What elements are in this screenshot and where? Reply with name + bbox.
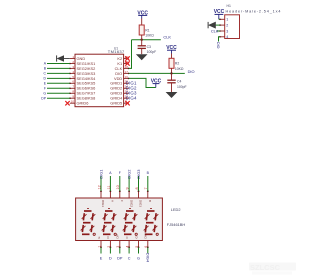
svg-text:DIG2: DIG2 xyxy=(127,169,132,179)
svg-text:F: F xyxy=(120,200,124,202)
no-connect X at U1 pin 11 GRID5 xyxy=(125,101,129,105)
svg-text:DIO: DIO xyxy=(188,69,195,74)
wire from display pin 2 xyxy=(109,248,111,254)
H1 pin stubs xyxy=(220,19,225,37)
wire CLK vertical from U1 pin 18 xyxy=(129,40,132,69)
display top pin end dots xyxy=(100,190,149,192)
svg-text:G: G xyxy=(137,257,140,261)
wire H1 pin4 DIO xyxy=(219,37,220,42)
U1 right pin numbers 20-11 xyxy=(125,55,129,104)
display inside top pin names vertical xyxy=(101,200,152,207)
no-connect X at U1 pin 19 K1 xyxy=(125,61,129,65)
wire VCC to R1 xyxy=(141,19,143,26)
H1 pin end dots xyxy=(219,19,221,38)
svg-text:17: 17 xyxy=(125,70,129,74)
svg-text:1: 1 xyxy=(97,246,101,248)
svg-text:A: A xyxy=(109,171,112,175)
svg-text:DIG1: DIG1 xyxy=(101,200,105,207)
svg-text:6: 6 xyxy=(144,246,148,248)
svg-text:E: E xyxy=(100,257,103,261)
wire H1 pin1 to VCC xyxy=(219,18,220,20)
junction DIO node xyxy=(170,72,172,74)
svg-text:C3: C3 xyxy=(147,45,151,49)
svg-text:LED2: LED2 xyxy=(171,207,181,212)
display top pin numbers 12 11 10 9 8 7 rotated xyxy=(97,185,148,189)
capacitor C4 xyxy=(167,73,175,92)
ground flag at U1 pin 1 xyxy=(57,55,70,62)
wire from display pin 5 xyxy=(138,248,140,254)
display LED2 body xyxy=(76,198,163,241)
display top pin stubs xyxy=(101,191,148,198)
wire to display pin 12 xyxy=(100,176,102,191)
svg-text:E: E xyxy=(44,81,47,85)
svg-text:B: B xyxy=(147,171,150,175)
svg-text:Header-Male-2.54_1x4: Header-Male-2.54_1x4 xyxy=(226,10,282,14)
svg-text:100pF: 100pF xyxy=(177,85,187,89)
no-connect X at U1 pin 20 K2 xyxy=(125,56,129,60)
wire from display pin 6 xyxy=(147,248,149,254)
svg-text:DIG2: DIG2 xyxy=(129,200,133,207)
svg-text:2: 2 xyxy=(226,23,228,27)
svg-text:4: 4 xyxy=(226,35,228,39)
IC U1 TM1637 body xyxy=(75,54,124,106)
wire VCC to R2 xyxy=(171,54,173,59)
svg-text:C4: C4 xyxy=(177,80,181,84)
svg-text:100pF: 100pF xyxy=(147,50,157,54)
svg-text:3: 3 xyxy=(226,29,228,33)
svg-text:TM1637: TM1637 xyxy=(108,49,125,54)
ground below C3 xyxy=(136,54,148,60)
svg-text:DIG4: DIG4 xyxy=(145,253,150,263)
svg-text:4: 4 xyxy=(126,246,130,248)
power VCC above R2 xyxy=(166,45,177,54)
wire SEG6 xyxy=(47,87,70,89)
svg-text:GRID5: GRID5 xyxy=(110,101,122,106)
svg-text:3: 3 xyxy=(116,246,120,248)
wire SEG4 xyxy=(47,77,70,79)
svg-text:1: 1 xyxy=(226,18,228,22)
svg-text:10KΩ: 10KΩ xyxy=(145,34,154,38)
wire SEG1 xyxy=(47,63,70,65)
wire DIO to label xyxy=(172,72,185,74)
wire to display pin 10 xyxy=(119,176,121,191)
seven-segment digit 4 xyxy=(144,209,159,236)
capacitor C3 xyxy=(138,40,146,55)
wire CLK horizontal xyxy=(132,39,161,41)
no-connect X at U1 pin 10 GRID6 xyxy=(65,101,69,105)
ground flag at H1 pin 2 xyxy=(208,22,216,29)
wire from display pin 1 xyxy=(100,248,102,254)
svg-text:DIG1: DIG1 xyxy=(98,169,103,179)
wire from display pin 4 xyxy=(128,248,130,254)
svg-text:DP: DP xyxy=(41,96,46,100)
U1 right pin stubs xyxy=(124,59,129,104)
svg-text:DIG3: DIG3 xyxy=(139,200,143,207)
header H1 body xyxy=(225,15,240,39)
wire SEG3 xyxy=(47,72,70,74)
seven-segment digit 1 xyxy=(81,209,96,236)
ground below C4 xyxy=(166,92,178,98)
svg-text:C: C xyxy=(128,257,131,261)
U1 left pin numbers 1-10 xyxy=(71,55,75,104)
svg-text:CLK: CLK xyxy=(211,28,219,33)
resistor R2 xyxy=(169,58,174,73)
U1 pin end dots xyxy=(69,63,129,99)
svg-text:DP: DP xyxy=(117,257,123,261)
wire SEG8 xyxy=(47,97,70,99)
display inside bottom pin names vertical xyxy=(97,231,148,238)
svg-text:G: G xyxy=(43,91,46,95)
svg-text:E: E xyxy=(97,236,101,238)
U1 left pin names xyxy=(77,56,97,106)
svg-text:R2: R2 xyxy=(175,62,179,66)
power VCC at VDD xyxy=(151,78,162,87)
svg-text:B: B xyxy=(148,200,152,202)
wire from display pin 3 xyxy=(119,248,121,254)
wire to display pin 9 xyxy=(128,176,130,191)
svg-text:F: F xyxy=(44,86,46,90)
junction CLK node xyxy=(141,39,143,41)
svg-text:SZLCSC: SZLCSC xyxy=(250,263,281,272)
wire to display pin 7 xyxy=(147,176,149,191)
svg-text:16: 16 xyxy=(125,75,129,79)
seven-segment digit 3 xyxy=(123,209,138,236)
svg-text:D: D xyxy=(109,257,112,261)
svg-text:FJ5461BH: FJ5461BH xyxy=(167,222,186,227)
display bottom pin numbers 1-6 rotated xyxy=(97,246,148,248)
svg-text:GRID6: GRID6 xyxy=(77,101,89,106)
svg-text:DIO: DIO xyxy=(216,42,220,49)
watermark xyxy=(249,263,296,275)
svg-text:CLK: CLK xyxy=(163,35,171,40)
svg-text:R1: R1 xyxy=(145,28,149,32)
svg-text:5: 5 xyxy=(135,246,139,248)
wire VDD to VCC xyxy=(129,78,156,87)
svg-text:C: C xyxy=(44,72,47,76)
power VCC above R1 xyxy=(137,10,148,18)
wire H1 pin3 CLK xyxy=(217,30,220,32)
display bottom pin end dots xyxy=(100,246,149,248)
power VCC at H1 pin 1 xyxy=(214,9,225,19)
svg-text:B: B xyxy=(44,67,47,71)
wire to display pin 8 xyxy=(138,176,140,191)
resistor R1 xyxy=(139,25,144,40)
U1 right pin names xyxy=(110,56,123,106)
svg-text:10KΩ: 10KΩ xyxy=(175,67,184,71)
wire H1 pin2 to ground xyxy=(216,24,220,26)
svg-text:2: 2 xyxy=(107,246,111,248)
svg-text:H1: H1 xyxy=(227,4,231,8)
seven-segment digit 2 xyxy=(102,209,117,236)
svg-text:A: A xyxy=(111,200,115,202)
display bottom pin stubs xyxy=(101,241,148,248)
wire to display pin 11 xyxy=(109,176,111,191)
H1 pin numbers xyxy=(226,18,228,39)
svg-text:DIG3: DIG3 xyxy=(136,169,141,179)
svg-text:F: F xyxy=(119,171,121,175)
wire DIO from U1 pin 17 xyxy=(129,72,172,74)
U1 left pin stubs xyxy=(70,59,75,104)
wire SEG2 xyxy=(47,67,70,69)
svg-text:10: 10 xyxy=(71,100,75,104)
svg-text:DIG4: DIG4 xyxy=(126,96,137,101)
svg-text:D: D xyxy=(44,77,47,81)
wire SEG7 xyxy=(47,92,70,94)
svg-text:A: A xyxy=(44,62,47,66)
wire SEG5 xyxy=(47,82,70,84)
